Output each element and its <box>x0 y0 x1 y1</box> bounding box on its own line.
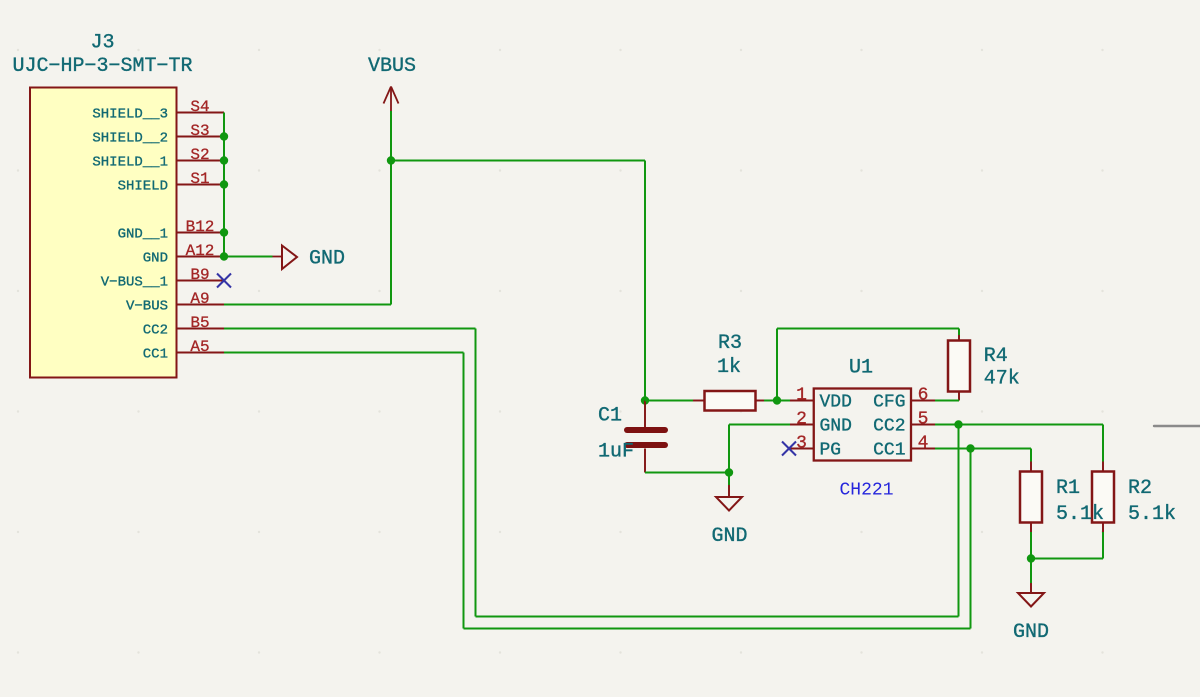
resistor R2 <box>1092 462 1114 533</box>
svg-text:GND: GND <box>143 250 168 266</box>
svg-text:R2: R2 <box>1128 477 1152 500</box>
wire CC2 left riser <box>475 329 477 617</box>
no-connect X on B9 <box>217 274 231 288</box>
sheet edge gray line <box>1154 425 1200 427</box>
junction CC1 drop node <box>966 444 974 452</box>
pin S2 of J3 <box>177 146 225 164</box>
wire R4 top stub <box>958 329 960 336</box>
svg-text:5.1k: 5.1k <box>1056 503 1104 526</box>
wire R2 bottom stub <box>1102 532 1104 559</box>
svg-text:V−BUS: V−BUS <box>126 298 168 314</box>
svg-text:1: 1 <box>796 386 807 406</box>
wire CC1 drop vertical <box>970 449 972 629</box>
svg-text:S1: S1 <box>190 170 209 188</box>
ground symbol under C1 <box>716 473 742 511</box>
pin A12 of J3 <box>177 242 225 260</box>
wire A5 to CC1 riser <box>224 352 464 354</box>
junction S1 <box>220 180 228 188</box>
wire to U1 pin2 <box>729 424 790 426</box>
svg-text:S3: S3 <box>190 122 209 140</box>
wire shield bus vertical <box>223 113 225 257</box>
wire pin1 node up <box>776 329 778 401</box>
pin A9 of J3 <box>177 290 225 308</box>
svg-text:5: 5 <box>918 410 929 430</box>
junction S3 <box>220 132 228 140</box>
svg-text:3: 3 <box>796 434 807 454</box>
svg-text:A9: A9 <box>190 290 209 308</box>
wire R1 top stub <box>1030 449 1032 462</box>
pin A5 of J3 <box>177 338 225 356</box>
svg-text:SHIELD__2: SHIELD__2 <box>92 130 168 146</box>
svg-text:A12: A12 <box>186 242 215 260</box>
wire C1 column down <box>644 161 646 401</box>
connector J3 <box>30 88 177 378</box>
resistor R1 <box>1020 462 1042 533</box>
svg-text:GND: GND <box>711 525 747 548</box>
wire CC1 bottom run <box>464 628 971 630</box>
svg-text:SHIELD__3: SHIELD__3 <box>92 106 168 122</box>
wire VBUS riser vertical <box>390 161 392 305</box>
pin 3 of U1 <box>790 434 814 454</box>
svg-text:SHIELD: SHIELD <box>118 178 168 194</box>
svg-text:R3: R3 <box>718 332 742 355</box>
IC U1 body <box>814 389 911 461</box>
junction GND node under U1 <box>725 468 733 476</box>
svg-text:B9: B9 <box>190 266 209 284</box>
junction S2 <box>220 156 228 164</box>
pin 2 of U1 <box>790 410 814 430</box>
resistor R3 <box>693 391 764 411</box>
junction CC2 drop node <box>954 420 962 428</box>
resistor R4 <box>948 335 970 401</box>
svg-text:V−BUS__1: V−BUS__1 <box>101 274 168 290</box>
svg-text:1k: 1k <box>717 356 741 379</box>
no-connect X on pin 3 <box>782 442 796 456</box>
wire CC2 bottom run <box>476 616 959 618</box>
wire R2 top stub <box>1102 425 1104 462</box>
wire pin6 to R4 bottom <box>935 400 959 402</box>
wire CC1 left riser <box>463 353 465 629</box>
svg-text:GND__1: GND__1 <box>118 226 168 242</box>
wire pin4 to R1 column <box>935 448 1031 450</box>
pin B12 of J3 <box>177 218 225 236</box>
svg-text:U1: U1 <box>849 357 873 380</box>
junction pin1 node <box>773 396 781 404</box>
svg-text:5.1k: 5.1k <box>1128 503 1176 526</box>
pin B9 of J3 <box>177 266 225 284</box>
svg-text:VBUS: VBUS <box>368 55 416 78</box>
svg-text:R1: R1 <box>1056 477 1080 500</box>
svg-text:A5: A5 <box>190 338 209 356</box>
junction B12 <box>220 228 228 236</box>
junction C1 top node <box>641 396 649 404</box>
wire R1 bottom stub <box>1030 532 1032 559</box>
pin S3 of J3 <box>177 122 225 140</box>
junction A12 <box>220 252 228 260</box>
svg-text:GND: GND <box>820 417 852 437</box>
pin B5 of J3 <box>177 314 225 332</box>
svg-text:1uF: 1uF <box>598 441 634 464</box>
svg-text:4: 4 <box>918 434 929 454</box>
svg-text:R4: R4 <box>984 345 1008 368</box>
svg-text:GND: GND <box>1013 621 1049 644</box>
wire A9 to VBUS riser <box>224 304 391 306</box>
svg-text:CC1: CC1 <box>873 441 905 461</box>
junction VBUS node <box>387 156 395 164</box>
wire CC2 drop vertical <box>958 425 960 617</box>
wire C1 bottom to GND node <box>645 472 729 474</box>
svg-text:B5: B5 <box>190 314 209 332</box>
svg-text:UJC−HP−3−SMT−TR: UJC−HP−3−SMT−TR <box>12 55 192 78</box>
pin 6 of U1 <box>911 386 935 406</box>
ground symbol near A12 <box>273 246 298 270</box>
svg-text:2: 2 <box>796 410 807 430</box>
svg-text:CH221: CH221 <box>839 481 893 501</box>
capacitor C1 <box>624 401 668 473</box>
wire B5 to CC2 riser <box>224 328 476 330</box>
pin 1 of U1 <box>790 386 814 406</box>
svg-text:GND: GND <box>309 248 345 271</box>
svg-text:B12: B12 <box>186 218 215 236</box>
svg-text:S2: S2 <box>190 146 209 164</box>
svg-text:CC2: CC2 <box>873 417 905 437</box>
svg-text:PG: PG <box>820 441 842 461</box>
svg-text:6: 6 <box>918 386 929 406</box>
pin 5 of U1 <box>911 410 935 430</box>
wire R1-R2 bottom link <box>1031 558 1103 560</box>
svg-text:CFG: CFG <box>873 393 905 413</box>
wire R3 right to pin1 node <box>764 400 790 402</box>
wire A12 to GND symbol <box>224 256 273 258</box>
svg-text:47k: 47k <box>984 368 1020 391</box>
pin 4 of U1 <box>911 434 935 454</box>
wire VBUS horizontal to C1 column <box>391 160 645 162</box>
power symbol VBUS <box>390 111 392 161</box>
wire GND node up to pin2 level <box>728 425 730 473</box>
svg-text:CC2: CC2 <box>143 322 168 338</box>
pin S4 of J3 <box>177 98 225 116</box>
wire over U1 to R4 top <box>777 328 959 330</box>
svg-text:SHIELD__1: SHIELD__1 <box>92 154 168 170</box>
pin S1 of J3 <box>177 170 225 188</box>
svg-text:C1: C1 <box>598 405 622 428</box>
svg-text:CC1: CC1 <box>143 346 168 362</box>
svg-text:J3: J3 <box>90 32 114 55</box>
svg-text:VDD: VDD <box>820 393 852 413</box>
wire pin5 to R2 column <box>935 424 1103 426</box>
ground symbol bottom right <box>1018 559 1044 607</box>
wire C1 node to R3 left <box>645 400 693 402</box>
junction R1 bottom node <box>1027 554 1035 562</box>
svg-text:S4: S4 <box>190 98 209 116</box>
